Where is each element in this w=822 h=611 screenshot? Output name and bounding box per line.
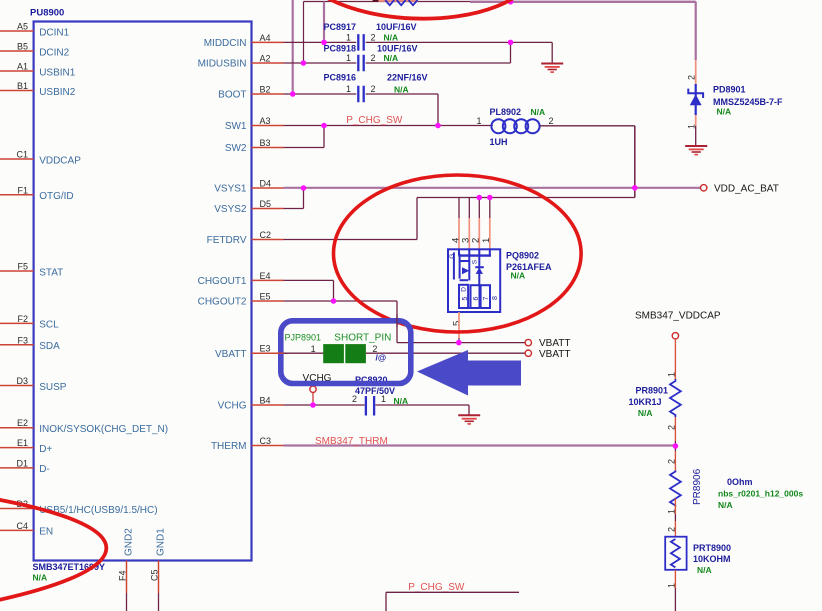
svg-text:1: 1 [346,84,351,94]
svg-text:2: 2 [371,33,376,43]
svg-text:2: 2 [371,84,376,94]
wire PQ8902 pin2 stub [478,198,480,250]
pin number 2 (PD8901) [686,75,696,80]
pin number 2 (PC8920) [352,394,357,404]
pin B3 SW2 [225,138,284,154]
label N/A (PL8902) [531,107,546,117]
svg-text:C4: C4 [16,521,28,531]
svg-text:0Ohm: 0Ohm [727,477,753,487]
pin number 2 (PR8901) [666,425,676,430]
svg-text:SW1: SW1 [225,121,247,132]
svg-text:C5: C5 [150,569,160,581]
diode PD8901 (zener) [688,84,703,115]
svg-text:PD8901: PD8901 [713,85,746,95]
pin number 1 (PC8918) [346,53,351,63]
label N/A (PC8917) [384,33,399,43]
pin A2 MIDUSBIN [198,54,284,70]
svg-text:2: 2 [666,527,676,532]
value 10KR1J [628,397,661,407]
svg-text:2: 2 [352,394,357,404]
svg-text:8: 8 [492,296,499,300]
svg-text:F1: F1 [17,185,28,195]
svg-text:2: 2 [371,53,376,63]
label N/A (PR8901) [638,408,653,418]
svg-text:N/A: N/A [384,53,399,63]
svg-text:1: 1 [476,116,481,126]
svg-text:47PF/50V: 47PF/50V [355,386,395,396]
wire THERM junction to PR8906 [674,446,676,471]
svg-text:P_CHG_SW: P_CHG_SW [408,582,465,593]
wire net P_CHG_SW (SW1 row) [284,125,493,127]
svg-text:GND2: GND2 [124,528,135,556]
svg-text:A4: A4 [260,33,271,43]
svg-text:SHORT_PIN: SHORT_PIN [334,332,391,343]
junction (303.4,63) [301,60,307,66]
label PD8901 [713,85,746,95]
net label P CHG SW (bottom) [408,582,465,593]
svg-text:D-: D- [39,464,50,475]
wire PQ8902 pin3 stub [468,198,470,250]
label N/A (PC8916) [394,85,409,95]
label N/A (PQ8902) [511,270,526,280]
svg-text:PR8906: PR8906 [692,468,703,505]
wire net P CHG SW (bottom) [386,592,519,611]
label PRT8900 [693,543,731,553]
value P261AFEA [506,262,552,272]
jumper PJP8901 (shorting blocks) [323,344,366,363]
label SHORT_PIN [334,332,391,343]
svg-text:N/A: N/A [384,33,399,43]
svg-text:C3: C3 [260,436,272,446]
pin number 2 (PC8916) [371,84,376,94]
pin numbers 5 6 7 8 inside PQ8902 [462,296,499,301]
svg-text:N/A: N/A [638,408,653,418]
wire PR8906 to PRT8900 [674,499,676,537]
junction (438,125.5) [435,123,441,129]
pin E3 VBATT [215,344,283,360]
wire vertical x=303.5 (top bus to MIDUSBIN) [303,2,305,64]
svg-text:E5: E5 [260,292,271,302]
svg-text:N/A: N/A [697,565,712,575]
value 10KOHM [693,554,731,564]
pin C1 VDDCAP [0,150,81,167]
ground (PC8920) [458,415,480,424]
wire vertical x=324 (top bus to MIDDCIN) [323,2,325,43]
value 0Ohm [727,477,753,487]
pin E4 CHGOUT1 [198,271,284,287]
svg-text:PR8901: PR8901 [635,386,668,396]
junction (324,125.5) [321,123,327,129]
pin A4 MIDDCIN [204,33,284,49]
svg-text:GND1: GND1 [156,528,167,556]
value MMSZ5245B-7-F [713,97,783,107]
pin D5 VSYS2 [214,199,283,215]
net label P CHG SW [346,115,403,126]
svg-text:PC8916: PC8916 [324,73,357,83]
svg-text:2: 2 [549,116,554,126]
value 47PF/50V [355,386,395,396]
wire SW2 joins SW1 [284,126,325,148]
value 1UH (PL8902) [490,137,508,147]
label N/A (PC8920) [394,396,409,406]
label N/A (PRT8900) [697,565,712,575]
svg-text:SW2: SW2 [225,143,247,154]
annotation: red ellipse (around PQ8902) [334,175,582,332]
label PR8906 (rotated) [692,468,703,505]
annotation: red ellipse (bottom left) [0,464,108,611]
svg-text:1: 1 [666,372,676,377]
inductor PL8902 [491,119,539,133]
resistor PRT8900 (thermistor) [665,537,686,570]
pin number 1 (PRT8900 bottom) [666,583,676,588]
svg-text:1: 1 [311,344,316,354]
svg-text:7: 7 [483,297,490,301]
svg-text:B2: B2 [260,85,271,95]
pin C3 THERM [211,436,284,452]
svg-text:nbs_r0201_h12_000s: nbs_r0201_h12_000s [718,489,803,499]
svg-text:D+: D+ [39,444,52,455]
svg-text:N/A: N/A [394,85,409,95]
pin E5 CHGOUT2 [198,292,284,308]
svg-text:BOOT: BOOT [218,90,246,101]
pin number 2 (PQ8902) [471,238,482,243]
svg-text:PRT8900: PRT8900 [693,543,731,553]
value 10UF/16V (PC8917) [376,22,417,32]
svg-text:10UF/16V: 10UF/16V [377,44,418,54]
svg-text:MIDUSBIN: MIDUSBIN [198,59,247,70]
wire FETDRV to PQ8902 gate bus [284,198,635,240]
svg-text:STAT: STAT [39,267,63,278]
wire top bus to PD8901 pin2 [695,2,697,85]
pin B1 USBIN2 [0,81,76,98]
svg-text:10KOHM: 10KOHM [693,554,731,564]
svg-text:1: 1 [481,238,492,243]
svg-text:A3: A3 [260,116,271,126]
svg-text:SMB347_THRM: SMB347_THRM [315,436,388,447]
diode array stubs (cut off at top) [373,0,418,5]
svg-text:PL8902: PL8902 [490,107,522,117]
junction (634.8,187.8) [632,185,638,191]
pin D4 VSYS1 [214,179,283,195]
svg-text:VBATT: VBATT [539,349,570,360]
wire CHGOUT2 vertical over annotation [396,315,398,328]
value nbs_r0201_h12_000s [718,489,803,499]
svg-text:A2: A2 [260,54,271,64]
pin C5 GND1 [150,528,167,593]
svg-text:C1: C1 [16,150,28,160]
label N/A (PU8900) [33,573,48,583]
svg-text:EN: EN [39,527,53,538]
wire PC8916 pin2 down to SW net [366,94,438,126]
svg-text:N/A: N/A [33,573,48,583]
svg-text:1: 1 [346,33,351,43]
svg-text:10KR1J: 10KR1J [628,397,661,407]
capacitor PC8920 [366,396,374,416]
junction (333.5,301) [331,298,337,304]
net label SMB347_THRM [315,436,388,447]
pin D3 SUSP [0,376,67,393]
svg-text:6: 6 [473,297,480,301]
svg-text:5: 5 [462,297,469,301]
svg-text:22NF/16V: 22NF/16V [387,73,428,83]
label SMB347ET1699Y [33,562,106,572]
svg-text:B5: B5 [17,42,28,52]
wire PL8902 pin2 down to VDD_AC_BAT node [540,126,635,198]
svg-text:10UF/16V: 10UF/16V [376,22,417,32]
pin number 1 (PC8920) [381,394,386,404]
wire CHGOUT1 joins CHGOUT2 [284,280,334,301]
svg-text:2: 2 [666,459,676,464]
svg-text:PC8918: PC8918 [324,44,357,54]
pin labels G S D inside PQ8902 [449,254,478,292]
pin number 1 (PD8901) [686,124,696,129]
svg-text:B3: B3 [260,138,271,148]
svg-text:VDDCAP: VDDCAP [39,155,81,166]
wire PC8917 pin2 to ground [366,42,553,63]
annotation: blue rounded rectangle (jumper highlight) [281,321,411,384]
svg-text:DCIN1: DCIN1 [39,27,69,38]
wire PD8901 pin1 to ground [695,115,697,146]
svg-text:E3: E3 [260,344,271,354]
pin F4 GND2 [118,528,135,593]
svg-text:1: 1 [346,53,351,63]
pin number 1 (PJP8901) [311,344,316,354]
pin B4 VCHG [218,396,284,412]
svg-text:PC8917: PC8917 [324,22,357,32]
wire PC8918 pin2 to vertical x=510.5 [366,42,511,63]
pin number 1 (PR8901) [666,372,676,377]
wire top bus y=1.5 [304,1,696,3]
ground (PD8901) [685,146,707,155]
label PC8918 [324,44,357,54]
pin A1 USBIN1 [0,62,76,79]
label PU8900 [30,8,64,19]
svg-text:B1: B1 [17,81,28,91]
svg-text:N/A: N/A [718,500,733,510]
label PC8917 [324,22,357,32]
pin C2 FETDRV [207,230,284,246]
wire MIDDCIN to PC8917 pin1 [284,41,357,43]
wire PQ8902 pin5 stub down [458,312,460,343]
junction (510.5,42.4) [508,40,514,46]
resistor PR8901 [670,379,681,417]
svg-text:CHGOUT2: CHGOUT2 [198,297,247,308]
svg-text:VDD_AC_BAT: VDD_AC_BAT [714,183,779,194]
pin number 1 (PL8902) [476,116,481,126]
label PC8916 [324,73,357,83]
svg-text:N/A: N/A [531,107,546,117]
svg-text:USBIN2: USBIN2 [39,87,76,98]
junction (675.4,446) [673,443,679,449]
pin E1 D+ [0,438,52,455]
svg-text:1UH: 1UH [490,137,508,147]
ground (PC8917) [541,64,563,73]
junction (489.8,197.5) [487,195,493,201]
label /@ (PJP8901) [376,353,387,363]
svg-text:1: 1 [381,394,386,404]
svg-text:THERM: THERM [211,441,247,452]
pin C4 EN [0,521,53,538]
pin number 2 (PL8902) [549,116,554,126]
svg-text:2: 2 [471,238,482,243]
label PC8920 [355,375,388,385]
pin number 3 (PQ8902) [461,238,472,243]
wire GND2 to bottom edge [126,593,128,611]
svg-text:VSYS2: VSYS2 [214,204,247,215]
svg-text:F3: F3 [17,335,28,345]
wire VBATT pin E3 to jumper pin1 [284,352,325,354]
pin number 2 (PRT8900 top) [666,527,676,532]
wire jumper pin2 to VBATT (lower) [366,352,525,354]
svg-text:CHGOUT1: CHGOUT1 [198,276,247,287]
svg-text:DCIN2: DCIN2 [39,47,69,58]
label PL8902 [490,107,522,117]
svg-text:A1: A1 [17,62,28,72]
svg-text:E1: E1 [17,438,28,448]
junction (479.3,197.5) [477,195,483,201]
svg-text:D3: D3 [16,376,28,386]
svg-text:D5: D5 [260,199,272,209]
label PR8901 [635,386,668,396]
svg-text:USBIN1: USBIN1 [39,67,76,78]
svg-text:PJP8901: PJP8901 [285,332,322,342]
pin number 2 (PJP8901) [372,344,377,354]
pin number 4 (PQ8902) [450,238,461,243]
svg-text:PQ8902: PQ8902 [506,251,539,261]
node SMB347_VDDCAP [635,311,721,339]
svg-text:VBATT: VBATT [215,349,246,360]
wire BOOT to PC8916 pin1 [284,93,357,95]
pin F3 SDA [0,335,60,352]
svg-text:OTG/ID: OTG/ID [39,191,73,202]
pin B2 BOOT [218,85,283,101]
wire PC8920 pin1 to ground [375,405,469,415]
svg-text:SMB347_VDDCAP: SMB347_VDDCAP [635,311,721,322]
svg-text:2: 2 [686,75,696,80]
pin number 2 (PC8917) [371,33,376,43]
svg-text:E4: E4 [260,271,271,281]
IC U1 PU8900 charger body [34,22,252,561]
node VDD_AC_BAT [701,183,779,194]
svg-text:E2: E2 [17,418,28,428]
wire net SMB347_THRM [284,444,676,446]
annotation: blue arrow [417,350,521,396]
capacitor PC8917 [358,34,363,51]
junction (458.8,342.6) [456,340,462,346]
node VBATT (upper) [525,338,570,349]
wire PR8901 to THERM junction [674,417,676,446]
wire vertical x=293 (to BOOT) [292,0,294,94]
pin B5 DCIN2 [0,42,70,59]
svg-text:G: G [449,254,456,259]
svg-text:D: D [460,287,467,292]
svg-text:F5: F5 [17,262,28,272]
pin D1 D- [0,458,50,475]
wire PQ8902 pin1 stub [489,198,491,250]
label N/A (PD8901) [717,107,732,117]
junction (324,42.4) [321,40,327,46]
pin number 1 (PC8916) [346,84,351,94]
svg-text:N/A: N/A [717,107,732,117]
node VBATT (lower) [525,349,570,360]
wire VBATT pin stub over annotation [276,352,288,354]
svg-text:FETDRV: FETDRV [207,235,247,246]
pin F5 STAT [0,262,63,279]
wire VSYS2 joins VSYS1 [284,188,304,209]
svg-text:F4: F4 [118,570,128,581]
wire net VDD_AC_BAT (VSYS1 row) [284,187,701,189]
pin D2 USB5/1/HC(USB9/1.5/HC) [0,499,158,516]
wire net VBATT (upper) [397,342,525,344]
svg-text:PU8900: PU8900 [30,8,64,19]
svg-text:F2: F2 [17,314,28,324]
svg-text:SCL: SCL [39,320,59,331]
wire MIDUSBIN to PC8918 pin1 [284,62,357,64]
capacitor PC8916 [358,86,363,103]
svg-text:INOK/SYSOK(CHG_DET_N): INOK/SYSOK(CHG_DET_N) [39,424,168,435]
svg-text:D4: D4 [260,179,272,189]
pin E2 INOK/SYSOK(CHG_DET_N) [0,418,168,435]
svg-text:MIDDCIN: MIDDCIN [204,38,247,49]
wire CHGOUT2 to VBATT net [284,301,398,343]
svg-text:A5: A5 [17,22,28,32]
label PJP8901 [285,332,322,342]
svg-text:5: 5 [452,321,463,326]
svg-text:VCHG: VCHG [218,401,247,412]
label N/A (PR8906) [718,500,733,510]
svg-text:/@: /@ [376,353,387,363]
wire VCHG to PC8920 pin2 [284,404,365,406]
wire GND1 to bottom edge [158,593,160,611]
pin A3 SW1 [225,116,284,132]
pin number 2 (PC8918) [371,53,376,63]
value 22NF/16V (PC8916) [387,73,428,83]
pin number 5 (PQ8902) [452,321,463,326]
svg-text:P_CHG_SW: P_CHG_SW [346,115,403,126]
pin number 1 (PQ8902) [481,238,492,243]
svg-text:VBATT: VBATT [539,338,570,349]
node VCHG flag [303,373,332,405]
annotation: red ellipse (top) [294,0,537,23]
pin F1 OTG/ID [0,185,74,202]
resistor PR8906 [670,471,681,507]
svg-text:SUSP: SUSP [39,382,67,393]
svg-text:S: S [471,259,478,264]
label N/A (PC8918) [384,53,399,63]
wire VDDCAP flag to PR8901 [674,339,676,379]
junction (510.5,1.8) [508,0,514,5]
wire PQ8902 pin4 stub [458,198,460,250]
svg-text:N/A: N/A [511,270,526,280]
svg-text:SDA: SDA [39,341,60,352]
wire PRT8900 to bottom edge [674,570,676,611]
svg-text:B4: B4 [260,396,271,406]
pin number 1 (PC8917) [346,33,351,43]
svg-text:VSYS1: VSYS1 [214,184,247,195]
capacitor PC8918 [358,55,363,72]
junction (292.7,94) [290,91,296,97]
pin number 1 (PR8906 bottom) [666,509,676,514]
junction (303.5,188) [301,185,307,191]
svg-text:D1: D1 [16,458,28,468]
transistor PQ8902 [448,249,500,312]
svg-text:C2: C2 [260,230,272,240]
pin F2 SCL [0,314,59,331]
svg-text:MMSZ5245B-7-F: MMSZ5245B-7-F [713,97,783,107]
junction (313,405) [310,402,316,408]
pin A5 DCIN1 [0,22,70,39]
pin number 2 (PR8906 top) [666,459,676,464]
